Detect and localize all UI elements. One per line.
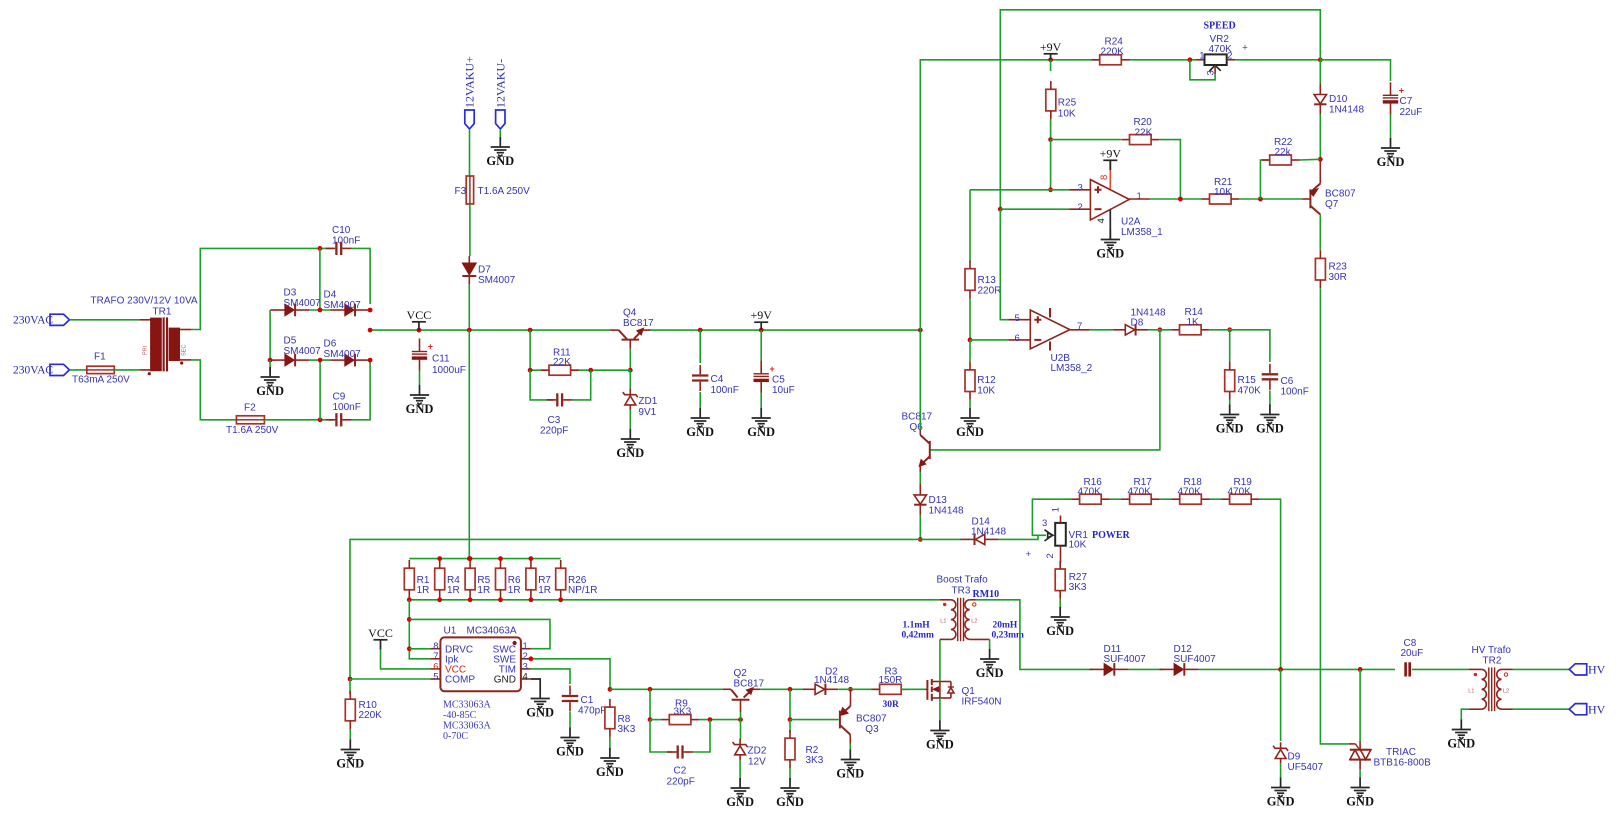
capacitor C3 220pF <box>556 393 558 406</box>
svg-text:T1.6A 250V: T1.6A 250V <box>226 425 279 436</box>
svg-text:3: 3 <box>1042 518 1047 529</box>
wire <box>419 371 421 386</box>
diode D11 SUF4007 <box>1104 664 1113 676</box>
svg-text:6: 6 <box>1015 333 1020 344</box>
supply VCC <box>412 322 426 330</box>
supply +9V (rail) <box>754 322 768 330</box>
svg-text:GND: GND <box>1346 794 1374 808</box>
wire <box>1390 114 1392 139</box>
svg-text:470K: 470K <box>1128 486 1152 497</box>
svg-text:-40-85C: -40-85C <box>443 710 477 721</box>
svg-text:C4: C4 <box>711 374 724 385</box>
svg-text:3K3: 3K3 <box>806 755 824 766</box>
svg-text:2: 2 <box>1078 202 1083 213</box>
wire <box>1280 669 1282 741</box>
connector HV (top) <box>1569 664 1587 675</box>
wire <box>760 688 803 690</box>
wire rail to C5 <box>760 330 762 361</box>
wire <box>1050 140 1052 190</box>
wire <box>1300 158 1321 161</box>
svg-text:Q2: Q2 <box>734 668 748 679</box>
svg-text:GND: GND <box>1046 624 1074 638</box>
svg-text:D8: D8 <box>1131 317 1144 328</box>
svg-text:NP/1R: NP/1R <box>568 585 597 596</box>
wire <box>1461 709 1468 721</box>
ground below bridge <box>261 367 280 386</box>
wire node to R12 <box>969 340 971 362</box>
wire <box>1319 114 1321 159</box>
diode D2 1N4148 <box>815 684 825 694</box>
wire <box>530 330 630 370</box>
wire R9 left <box>650 719 661 721</box>
svg-text:1N4148: 1N4148 <box>814 675 849 686</box>
svg-text:10uF: 10uF <box>772 385 795 396</box>
wire <box>920 538 961 540</box>
resistor R26 NP/1R <box>556 568 566 590</box>
svg-text:20uF: 20uF <box>1401 648 1424 659</box>
wire <box>409 600 430 659</box>
wire <box>920 60 1100 330</box>
node AC1 junction <box>318 246 323 251</box>
svg-text:GND: GND <box>526 705 554 719</box>
node +9V supply top <box>1048 57 1053 62</box>
svg-text:+: + <box>1026 549 1032 560</box>
diode D3 SM4007 <box>285 304 294 316</box>
svg-text:230VAC: 230VAC <box>13 365 53 377</box>
wire <box>381 649 431 669</box>
ground under R2 <box>780 778 799 797</box>
diode D6 SM4007 <box>345 354 354 366</box>
svg-text:GND: GND <box>1256 421 1284 435</box>
connector 230VAC (bottom) <box>50 364 70 375</box>
connector 12VAKU+ <box>465 110 474 129</box>
wire <box>1050 119 1052 140</box>
wire <box>970 189 1070 191</box>
ground under U1 pin4 <box>531 689 550 708</box>
wire <box>469 129 471 176</box>
wire <box>739 759 741 779</box>
wire <box>468 284 470 330</box>
svg-text:150R: 150R <box>879 675 903 686</box>
svg-text:T1.6A 250V: T1.6A 250V <box>478 186 531 197</box>
wire <box>1269 391 1271 406</box>
wire <box>649 689 651 719</box>
wire up to R16 row <box>1032 499 1071 535</box>
svg-text:TR3: TR3 <box>952 585 971 596</box>
wire <box>1359 769 1361 778</box>
svg-text:30R: 30R <box>1329 272 1347 283</box>
wire <box>699 392 701 409</box>
svg-text:SUF4007: SUF4007 <box>1104 654 1147 665</box>
wire <box>499 129 501 139</box>
wire <box>1159 498 1171 500</box>
fuse F3 <box>466 176 473 204</box>
wire <box>629 349 631 371</box>
svg-text:3K3: 3K3 <box>674 707 692 718</box>
ground under C11 <box>410 385 429 404</box>
wire <box>1513 668 1570 670</box>
svg-text:1: 1 <box>1137 191 1142 202</box>
svg-text:R13: R13 <box>978 275 997 286</box>
node shunt top <box>437 556 442 561</box>
ground under Q1 <box>930 721 949 740</box>
svg-text:470K: 470K <box>1238 386 1262 397</box>
wire <box>1148 329 1171 331</box>
svg-text:22K: 22K <box>553 357 571 368</box>
svg-text:GND: GND <box>256 384 284 398</box>
svg-text:1N4148: 1N4148 <box>1329 105 1364 116</box>
wire <box>609 737 611 749</box>
capacitor C10 <box>335 242 337 255</box>
svg-text:22k: 22k <box>1275 147 1292 158</box>
diode D8 1N4148 <box>1125 325 1135 335</box>
wire <box>264 419 333 421</box>
ground under R27 <box>1051 607 1070 626</box>
resistor R21 10K <box>1210 194 1232 204</box>
svg-text:10K: 10K <box>1069 539 1087 550</box>
svg-text:+: + <box>1399 86 1404 96</box>
svg-text:GND: GND <box>616 446 644 460</box>
capacitor C9 <box>335 413 337 426</box>
ground under TR2 <box>1452 720 1471 739</box>
node +input <box>1048 187 1053 192</box>
diode D5 SM4007 <box>285 354 294 366</box>
svg-text:L1: L1 <box>1468 689 1474 695</box>
svg-text:+: + <box>428 342 433 352</box>
svg-text:+: + <box>1242 43 1248 54</box>
svg-text:GND: GND <box>686 425 714 439</box>
svg-text:GND: GND <box>1377 155 1405 169</box>
wire <box>1150 198 1201 200</box>
svg-text:F2: F2 <box>244 403 256 414</box>
wire <box>740 712 742 720</box>
svg-text:1R: 1R <box>477 585 490 596</box>
wire to ZD1 <box>629 370 631 389</box>
ground under R8 <box>600 748 619 767</box>
wire <box>191 248 333 329</box>
svg-text:470K: 470K <box>1178 486 1202 497</box>
node shunt bottom <box>407 597 412 602</box>
wire <box>1209 330 1270 362</box>
svg-text:1R: 1R <box>417 585 430 596</box>
ground under R12 <box>960 408 979 427</box>
wire <box>1210 498 1222 500</box>
wire <box>989 639 991 650</box>
resistor R27 3K3 <box>1055 569 1065 591</box>
svg-text:C9: C9 <box>333 392 346 403</box>
wire <box>269 310 271 360</box>
node R25/R20 <box>1048 137 1053 142</box>
resistor R11 22K <box>549 365 571 375</box>
wire <box>530 370 553 400</box>
IC U1 MC34063A <box>440 637 521 691</box>
svg-text:100nF: 100nF <box>1281 387 1309 398</box>
svg-text:C11: C11 <box>432 354 450 365</box>
wire <box>970 339 1009 341</box>
svg-text:BC817: BC817 <box>623 318 654 329</box>
node VCC feed at top rail <box>467 556 472 561</box>
potentiometer VR1 10K POWER <box>1055 523 1066 546</box>
svg-text:VCC: VCC <box>368 626 393 640</box>
resistor R4 1R <box>435 568 445 590</box>
svg-text:GND: GND <box>494 675 516 686</box>
wire <box>573 370 591 400</box>
svg-text:GND: GND <box>747 425 775 439</box>
svg-text:1000uF: 1000uF <box>432 365 466 376</box>
wire <box>350 539 920 679</box>
wire <box>760 393 762 409</box>
svg-text:POWER: POWER <box>1092 530 1131 541</box>
svg-text:GND: GND <box>596 765 624 779</box>
svg-text:L2: L2 <box>1503 689 1509 695</box>
svg-text:D7: D7 <box>478 265 491 276</box>
svg-text:R15: R15 <box>1238 375 1257 386</box>
capacitor C8 20uF <box>1398 667 1416 672</box>
wire rail to C4 <box>699 330 701 363</box>
node SWE pin <box>529 656 534 661</box>
node VCC symbol tap <box>417 328 422 333</box>
connector 12VAKU- <box>496 110 505 129</box>
wire <box>114 369 140 371</box>
node +9V rail to feedback column <box>918 328 923 333</box>
svg-text:220R: 220R <box>978 286 1002 297</box>
wire <box>969 190 971 262</box>
wire <box>930 330 1160 450</box>
svg-text:220K: 220K <box>359 710 383 721</box>
wire <box>468 330 470 558</box>
wire <box>1320 60 1390 81</box>
svg-text:HV: HV <box>1588 663 1606 677</box>
svg-text:1N4148: 1N4148 <box>971 527 1006 538</box>
op-amp U2B LM358_2 <box>1030 310 1070 349</box>
node SWE / R8 / main drive line <box>608 687 613 692</box>
svg-text:2: 2 <box>1227 51 1232 62</box>
svg-text:HV: HV <box>1588 702 1606 716</box>
svg-text:470pF: 470pF <box>578 706 606 717</box>
wire to D10 <box>1319 48 1321 84</box>
node R11 tap on rail <box>528 328 533 333</box>
resistor R17 470K <box>1130 494 1152 504</box>
wire <box>1000 208 1069 210</box>
svg-text:22K: 22K <box>1135 127 1153 138</box>
resistor R24 220K <box>1100 55 1122 65</box>
svg-text:SM4007: SM4007 <box>324 300 362 311</box>
wire <box>1129 668 1163 670</box>
svg-text:100nF: 100nF <box>332 236 360 247</box>
svg-text:GND: GND <box>836 766 864 780</box>
svg-text:5: 5 <box>1015 313 1020 324</box>
node TRIAC tap <box>1358 667 1363 672</box>
svg-text:BC807: BC807 <box>856 714 887 725</box>
wire <box>1235 59 1320 61</box>
wire <box>531 669 570 684</box>
svg-text:12VAKU+: 12VAKU+ <box>463 56 477 108</box>
ground under C7 <box>1381 138 1400 157</box>
svg-text:GND: GND <box>556 744 584 758</box>
wire <box>939 640 941 682</box>
wire <box>629 410 631 430</box>
node Q2 emitter / ZD2 <box>738 717 743 722</box>
wire COMP to R10 <box>349 679 351 694</box>
wire <box>1109 498 1121 500</box>
svg-text:3K3: 3K3 <box>618 724 636 735</box>
resistor R6 1R <box>496 568 506 590</box>
ground under C4 <box>691 408 710 427</box>
fuse F2 <box>236 416 264 424</box>
svg-text:1R: 1R <box>508 585 521 596</box>
resistor R22 22k <box>1270 155 1292 165</box>
wire <box>901 688 925 690</box>
node D8 cathode / feedback <box>1158 327 1163 332</box>
svg-text:20mH: 20mH <box>993 620 1018 630</box>
node D7 on rail <box>467 328 472 333</box>
svg-text:+9V: +9V <box>1040 40 1062 54</box>
resistor R8 3K3 <box>605 707 615 729</box>
svg-text:TRAFO 230V/12V 10VA: TRAFO 230V/12V 10VA <box>91 296 198 307</box>
diode D13 1N4148 <box>914 495 926 504</box>
svg-text:L2: L2 <box>971 619 977 625</box>
wire <box>531 659 610 690</box>
ground under Q3 <box>841 750 860 769</box>
wire <box>352 360 370 420</box>
svg-text:R25: R25 <box>1058 97 1077 108</box>
svg-text:220pF: 220pF <box>667 777 695 788</box>
svg-text:TRIAC: TRIAC <box>1386 747 1416 758</box>
ground under TRIAC <box>1351 778 1370 797</box>
svg-text:GND: GND <box>336 756 364 770</box>
diode D12 SUF4007 <box>1174 664 1183 676</box>
svg-text:4: 4 <box>1096 218 1107 223</box>
svg-text:F3: F3 <box>455 186 467 197</box>
wire <box>1412 668 1469 670</box>
wire <box>309 359 330 361</box>
wire <box>1059 599 1061 608</box>
wire <box>1159 140 1180 199</box>
svg-text:1R: 1R <box>447 585 460 596</box>
wire <box>939 698 941 722</box>
node D5 anode <box>268 358 273 363</box>
wire <box>409 648 430 650</box>
svg-text:1R: 1R <box>538 585 551 596</box>
svg-text:LM358_1: LM358_1 <box>1121 227 1163 238</box>
wire <box>309 309 330 311</box>
wire <box>370 329 920 331</box>
svg-text:12V: 12V <box>748 757 766 768</box>
svg-text:U1: U1 <box>444 626 457 637</box>
capacitor C6 100nF <box>1262 373 1278 375</box>
node shunt bottom <box>437 597 442 602</box>
svg-text:TR2: TR2 <box>1483 656 1502 667</box>
ground under D9 <box>1271 778 1290 797</box>
svg-text:C7: C7 <box>1400 96 1413 107</box>
wire to R2 <box>789 720 791 733</box>
node D10 top <box>1318 57 1323 62</box>
svg-text:ZD2: ZD2 <box>748 746 767 757</box>
node DRVC <box>407 646 412 651</box>
svg-text:100nF: 100nF <box>333 402 361 413</box>
svg-text:T63mA 250V: T63mA 250V <box>72 375 130 386</box>
svg-text:PRI: PRI <box>142 345 148 355</box>
node R22 tap <box>1258 197 1263 202</box>
svg-text:VCC: VCC <box>407 308 432 322</box>
svg-text:C2: C2 <box>674 766 687 777</box>
svg-text:R23: R23 <box>1329 261 1348 272</box>
node shunt bottom <box>468 597 473 602</box>
svg-text:3K3: 3K3 <box>1069 582 1087 593</box>
svg-text:0-70C: 0-70C <box>443 731 468 742</box>
resistor R14 1K <box>1180 325 1202 335</box>
svg-text:Q6: Q6 <box>910 422 924 433</box>
svg-text:0,42mm: 0,42mm <box>902 631 935 641</box>
svg-text:Boost Trafo: Boost Trafo <box>937 575 989 586</box>
svg-text:1.1mH: 1.1mH <box>903 620 931 630</box>
svg-text:C5: C5 <box>772 375 785 386</box>
node COMP <box>348 677 353 682</box>
connector 230VAC (top) <box>50 314 70 325</box>
wire rail to Q4 collector <box>611 328 650 333</box>
wire <box>969 299 971 340</box>
ground under TR3 secondary <box>980 649 999 668</box>
wire node to R15 <box>1229 330 1231 362</box>
svg-text:Q4: Q4 <box>623 308 637 319</box>
svg-text:BC807: BC807 <box>1325 188 1356 199</box>
svg-text:D10: D10 <box>1329 94 1348 105</box>
node R22 / Q7 emitter <box>1318 157 1323 162</box>
svg-text:230VAC: 230VAC <box>13 315 53 327</box>
node AC2 junction <box>318 417 323 422</box>
wire <box>849 744 851 751</box>
svg-text:U2B: U2B <box>1051 353 1071 364</box>
wire <box>693 720 710 752</box>
fuse F1 <box>87 366 115 373</box>
svg-text:D4: D4 <box>324 290 337 301</box>
svg-text:GND: GND <box>726 795 754 809</box>
wire <box>350 678 430 680</box>
resistor R16 470K <box>1080 494 1102 504</box>
wire <box>70 369 88 371</box>
svg-text:1N4148: 1N4148 <box>929 506 964 517</box>
svg-text:10K: 10K <box>977 386 995 397</box>
wire <box>789 768 791 779</box>
svg-text:220pF: 220pF <box>540 425 568 436</box>
svg-text:COMP: COMP <box>445 675 475 686</box>
wire <box>1513 708 1570 710</box>
svg-text:2: 2 <box>1045 553 1056 558</box>
diode D7 SM4007 <box>462 263 476 275</box>
node shunt bottom <box>529 597 534 602</box>
svg-text:10K: 10K <box>1058 108 1076 119</box>
diode D9 UF5407 (zener symbol) <box>1273 746 1288 751</box>
node R11 left <box>528 368 533 373</box>
wire +9V to R25 <box>1050 60 1052 71</box>
resistor R5 1R <box>465 568 475 590</box>
node VR2 pin1 loop <box>1188 57 1193 62</box>
node shunt top <box>529 556 534 561</box>
wire <box>1000 209 1008 320</box>
resistor R1 1R <box>404 568 414 590</box>
svg-text:GND: GND <box>1216 421 1244 435</box>
wire <box>838 688 880 690</box>
svg-text:Q3: Q3 <box>865 724 879 735</box>
wire <box>409 558 560 560</box>
svg-text:1: 1 <box>1199 51 1204 62</box>
wire <box>789 689 791 719</box>
wire <box>976 600 1093 670</box>
svg-text:100nF: 100nF <box>711 385 739 396</box>
resistor R19 470K <box>1230 494 1252 504</box>
ground under ZD2 <box>731 778 750 797</box>
svg-text:SM4007: SM4007 <box>284 346 322 357</box>
